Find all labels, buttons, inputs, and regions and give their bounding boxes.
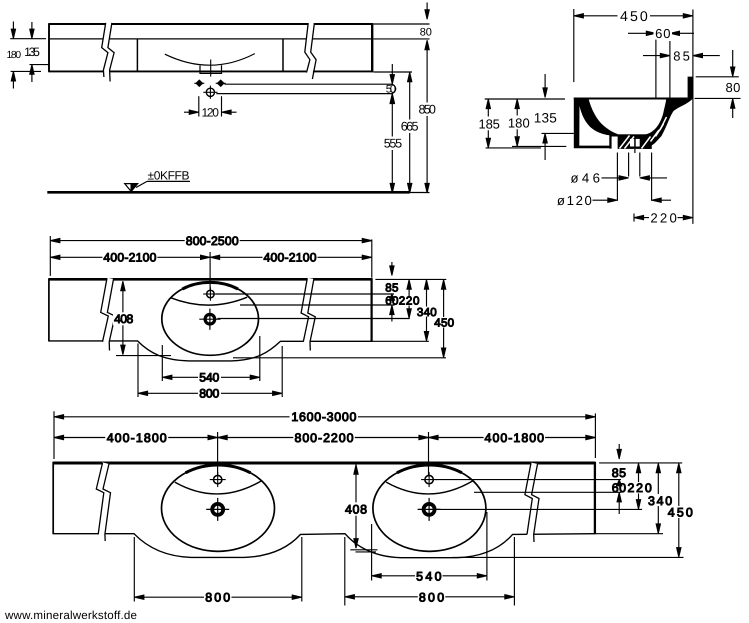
- dim 340 right: [426, 285, 428, 307]
- basin 2 thick back rim: [397, 465, 462, 473]
- svg-text:85: 85: [612, 466, 626, 480]
- dim 85 right: [391, 262, 393, 271]
- dim d46: [628, 153, 630, 177]
- dim 135: [542, 132, 574, 134]
- faucet hole circle: [203, 86, 217, 99]
- svg-text:555: 555: [384, 137, 402, 151]
- basin right wall, rim and upstand (solid section): [645, 77, 693, 149]
- svg-text:408: 408: [345, 503, 367, 517]
- dim 120 faucet: [184, 96, 237, 116]
- basin inner arc: [171, 297, 248, 305]
- svg-text:135: 135: [534, 110, 557, 125]
- svg-text:800: 800: [419, 590, 444, 604]
- svg-text:400-1800: 400-1800: [485, 431, 545, 445]
- dim 408: [122, 282, 124, 355]
- dim 800 basin 2: [344, 537, 346, 606]
- svg-text:220: 220: [627, 481, 651, 495]
- counter bar outline: [49, 23, 373, 72]
- dim 85: [643, 55, 661, 57]
- drain hole 1: [206, 498, 229, 521]
- svg-text:800-2200: 800-2200: [295, 431, 354, 445]
- svg-text:450: 450: [620, 9, 648, 25]
- dim 800: [137, 344, 139, 398]
- svg-text:665: 665: [401, 120, 419, 134]
- dim 85 right: [618, 444, 620, 454]
- right side reference lines: [375, 278, 446, 280]
- dim 540: [161, 345, 163, 381]
- dim d120: [616, 153, 618, 201]
- basin body left wall and bottom (solid section): [574, 98, 618, 149]
- hollow pocket under bowl: [579, 106, 609, 146]
- dim 850: [426, 43, 428, 193]
- basin oval: [162, 282, 259, 355]
- svg-text:450: 450: [668, 506, 693, 520]
- svg-text:85: 85: [385, 282, 398, 295]
- dim 450 top: [573, 9, 575, 82]
- counter bottom edge with bulge: [49, 341, 372, 361]
- dim 180 left: [10, 22, 46, 89]
- break symbol left: [100, 463, 108, 539]
- flange hatch streaks: [620, 117, 667, 149]
- drain slot left: [630, 139, 634, 147]
- break symbol right: [304, 278, 312, 349]
- dim 50 rail: [390, 75, 394, 85]
- svg-text:408: 408: [114, 312, 133, 326]
- svg-text:www.mineralwerkstoff.de: www.mineralwerkstoff.de: [4, 609, 137, 622]
- dim 135 left: [30, 22, 50, 82]
- break symbol left: [105, 23, 111, 79]
- faucet hole 1: [210, 472, 226, 487]
- dim 60: [655, 40, 657, 98]
- dim 220 right: [638, 469, 640, 483]
- dim 400-1800 left: [54, 437, 595, 439]
- underside extension line right: [374, 71, 413, 73]
- basin 2 inner arc: [386, 481, 473, 494]
- center extension line: [209, 252, 211, 290]
- svg-text:540: 540: [416, 570, 441, 584]
- mounting diamond right: [216, 80, 226, 86]
- svg-text:80: 80: [420, 26, 432, 38]
- svg-text:60: 60: [385, 295, 398, 308]
- dim 220: [633, 214, 635, 222]
- dim 800 basin 1: [133, 537, 135, 602]
- dim 180: [516, 99, 518, 146]
- center extension line basin 2: [428, 432, 430, 475]
- drain hole: [199, 309, 220, 330]
- dim 450 right: [678, 469, 680, 507]
- svg-text:±0KFFB: ±0KFFB: [148, 169, 190, 183]
- break symbol right: [308, 23, 313, 76]
- dim 185: [485, 98, 565, 100]
- dim 408 between bulges: [355, 465, 357, 548]
- dim 800-2200: [293, 431, 355, 444]
- svg-text:800: 800: [205, 591, 230, 605]
- upstand top extension: [696, 76, 739, 78]
- drain hole 2: [418, 498, 441, 521]
- dim 80 upstand: [732, 50, 734, 68]
- basin 1 inner arc: [175, 481, 262, 494]
- dim 340 right: [657, 469, 659, 495]
- dim 400-1800 right: [484, 431, 545, 444]
- svg-text:120: 120: [202, 105, 220, 119]
- towel rail capsule 50: [216, 84, 395, 93]
- svg-text:60: 60: [612, 481, 626, 495]
- counter bar underside-of-top line: [49, 38, 373, 40]
- faucet hole 2: [421, 472, 437, 487]
- break symbol right: [528, 463, 535, 539]
- dim 400-2100 left: [50, 256, 372, 258]
- svg-text:50: 50: [386, 83, 396, 95]
- basin 1 oval: [162, 465, 275, 551]
- svg-text:850: 850: [419, 103, 436, 117]
- svg-text:180: 180: [508, 115, 530, 130]
- svg-text:60: 60: [655, 26, 670, 41]
- right side reference lines: [599, 462, 682, 464]
- basin unit divider left: [136, 39, 138, 72]
- svg-text:1600-3000: 1600-3000: [291, 410, 356, 424]
- dim 1600-3000: [53, 411, 55, 459]
- dim 800-2500: [49, 236, 51, 276]
- svg-text:ø46: ø46: [570, 171, 600, 186]
- basin centerline: [210, 60, 212, 77]
- dim 60 right: [390, 305, 394, 315]
- basin front arc: [165, 54, 255, 66]
- center extension line basin 1: [217, 432, 219, 475]
- mounting diamond left: [194, 80, 204, 86]
- counter surface line across section: [574, 98, 688, 100]
- bottom reference lines 185/180: [486, 147, 541, 149]
- basin unit divider right: [282, 39, 284, 72]
- svg-text:400-2100: 400-2100: [103, 251, 156, 265]
- break symbol left: [104, 278, 112, 349]
- dim 60 right: [617, 492, 621, 502]
- svg-text:185: 185: [479, 116, 500, 131]
- surface extension right of upstand: [695, 97, 741, 99]
- svg-text:540: 540: [199, 371, 219, 385]
- dim 665: [409, 73, 411, 193]
- basin 2 oval: [373, 465, 486, 551]
- dim 540 basin 2: [371, 524, 373, 581]
- svg-text:800-2500: 800-2500: [186, 234, 239, 248]
- svg-text:180: 180: [7, 50, 22, 61]
- svg-text:80: 80: [726, 80, 741, 95]
- faucet hole: [203, 287, 217, 300]
- svg-text:400-2100: 400-2100: [264, 251, 317, 265]
- floor level symbol OKFFB: [125, 181, 190, 191]
- basin drain rectangle: [200, 65, 222, 73]
- svg-text:800: 800: [199, 387, 219, 401]
- counter bottom edge with two bulges: [53, 534, 595, 558]
- counter outline: [53, 462, 595, 465]
- floor line: [47, 191, 409, 194]
- dim 400-2100 right: [263, 251, 318, 264]
- drain flange block: [618, 134, 652, 149]
- basin oval thick back rim: [182, 282, 238, 289]
- svg-text:135: 135: [24, 45, 40, 59]
- white gap left of flange: [612, 137, 618, 151]
- drain slot right: [636, 139, 640, 147]
- svg-text:450: 450: [434, 317, 454, 330]
- dim 80 right: [374, 3, 430, 39]
- dim 220 right: [408, 285, 410, 296]
- svg-text:400-1800: 400-1800: [107, 431, 167, 445]
- basin 1 thick back rim: [186, 465, 251, 473]
- counter outline: [49, 278, 372, 281]
- svg-text:220: 220: [650, 210, 676, 225]
- drain centerline tick: [634, 149, 636, 153]
- dim 450 right: [443, 285, 445, 317]
- dim 555: [391, 94, 393, 192]
